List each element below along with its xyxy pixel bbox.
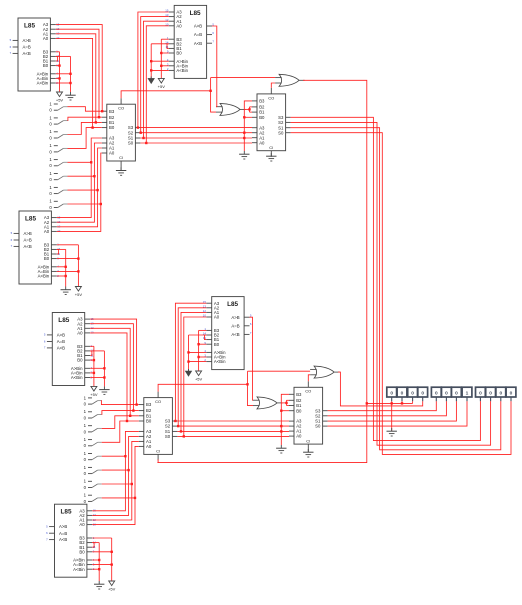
svg-text:CO: CO [155,399,161,404]
svg-text:A<Bin: A<Bin [176,68,188,73]
U7 wire A<Bin to gnd rail [189,361,207,363]
svg-text:+5V: +5V [195,377,203,382]
svg-text:S0: S0 [315,424,321,429]
svg-text:L85: L85 [190,10,201,17]
wire G2 output (digit-1 carry) down right side to U8.CI [157,80,366,462]
wire U1.A0 to X-bus bit0 [56,38,93,127]
svg-text:L85: L85 [227,301,238,308]
wire U6.A0 to X2-bus bit0 [90,333,127,421]
wire U2.A>B to G1 input [212,26,217,107]
svg-text:1: 1 [466,391,469,397]
wire S12 to U8.B0 [102,421,139,442]
svg-text:S2: S2 [278,120,284,125]
comparator U2 74LS85 (digit-1 sum vs 9) [165,5,214,78]
ground at U10 CI [307,450,309,452]
wire G1 output to U5.B2/B1 (+6 correction) [244,108,250,110]
wire S2 to U4.B2 [68,117,102,120]
svg-text:A0: A0 [176,23,182,28]
svg-text:A=B: A=B [231,323,239,328]
wire U5.S3 to X9 [291,117,481,440]
earth ground U4 CI [116,167,126,175]
wire Y-bus bit3: S5 / U3.A3 / U4.A3 [57,138,102,218]
svg-text:B0: B0 [146,419,152,424]
wire U1.A1 to X-bus bit1 [56,34,96,123]
svg-text:B3: B3 [259,99,265,104]
earth ground U10 CI [303,449,313,457]
svg-text:B0: B0 [296,408,302,413]
svg-text:A=B: A=B [57,339,65,344]
U2 wire B0 to +5V rail [161,52,169,54]
or-gate G4 [310,366,340,378]
wire U8.S2 to U10.A2 [177,425,289,427]
wire S10 to U8.B2 [102,411,139,415]
svg-text:0: 0 [455,391,458,397]
wire U1.A3 to X-bus bit3 [56,25,102,112]
wire U4.S2 to U5.A2 [140,132,252,134]
wire U4.S1 to U5.A1 [140,137,252,139]
svg-text:S2: S2 [165,424,171,429]
U2 wire B3 to +5V rail [161,38,169,40]
svg-text:L85: L85 [25,215,36,222]
svg-text:A0: A0 [296,434,302,439]
U1 wire A<Bin to gnd rail [56,82,71,84]
wire U8.S0 to U10.A0 [177,435,289,437]
ground at U5 CI [270,155,272,158]
svg-text:B0: B0 [77,358,83,363]
svg-text:S0: S0 [128,141,134,146]
+5V symbol U9 [108,581,116,592]
svg-text:CO: CO [268,95,274,100]
svg-text:B3: B3 [109,109,115,114]
LED indicator X2 [397,387,407,401]
svg-text:A>B: A>B [23,38,31,43]
gnd arrow U2 [148,76,154,83]
svg-text:A<Bin: A<Bin [73,567,85,572]
svg-text:L85: L85 [61,509,72,516]
U7 loop B2-B1 tie [205,335,207,340]
switch S12 (digit-2 bit) [84,437,102,448]
svg-text:S0: S0 [278,130,284,135]
svg-text:CI: CI [119,155,123,160]
svg-text:A0: A0 [259,140,265,145]
wire U10.S1 to X7 [328,401,457,421]
svg-text:A0: A0 [77,331,83,336]
U3 wire A=Bin to +5V rail [57,270,79,272]
switch S9 (digit-2 bit) [84,395,102,406]
U7 wire B2 to gnd rail [189,334,207,336]
wire U10.B3/B0 to ground [281,394,289,445]
svg-text:A=B: A=B [24,238,32,243]
wire Y-bus bit1: S7 / U3.A1 / U4.A1 [57,148,102,227]
svg-text:B3: B3 [146,402,152,407]
U3 wire B3 to +5V rail [57,244,79,246]
svg-text:+5V: +5V [108,587,116,592]
U6 wire B2 to gnd rail [90,350,104,352]
svg-text:0: 0 [411,391,414,397]
svg-text:A<Bin: A<Bin [37,81,49,86]
svg-text:L85: L85 [24,22,35,29]
svg-text:0: 0 [489,391,492,397]
switch S1 (digit-1 bit) [49,101,67,112]
earth ground X1 [387,428,397,436]
comparator U7 74LS85 (digit-2 sum vs 9) [203,297,252,370]
wire U10.S0 to X8 [328,401,467,426]
switch S7 (digit-1 bit) [49,185,67,196]
U7 wire B0 to +5V rail [199,343,207,345]
wire U5.CO to G2 input [271,83,275,88]
wire Y-bus bit2: S6 / U3.A2 / U4.A2 [57,143,102,222]
U6 loop B2-B1 tie [90,351,92,356]
wire U7.A1 to digit-2 sum bit1 [181,312,206,431]
wire Y2-bus bit2: S14 / U9.A2 / U8.A2 [92,436,139,515]
svg-text:A0: A0 [79,522,85,527]
U9 wire A=Bin to +5V rail [92,564,111,566]
ground at U4 CI [120,167,122,171]
wire U7.A0 to digit-2 sum bit0 [184,317,207,436]
LED indicator X10 [486,387,496,401]
earth ground U10 B-net [276,445,286,453]
svg-text:A0: A0 [109,151,115,156]
wire Y2-bus bit1: S15 / U9.A1 / U8.A1 [92,441,139,520]
or-gate G1 [216,103,246,115]
wire U7.A3 to digit-2 sum bit3 [175,303,206,421]
svg-text:B0: B0 [43,63,49,68]
+5V symbol U6 [90,386,98,397]
wire Y2-bus bit0: S16 / U9.A0 / U8.A0 [92,446,139,524]
U2 wire A=Bin to +5V rail [161,65,169,67]
svg-text:CO: CO [305,389,311,394]
svg-text:B0: B0 [109,125,115,130]
svg-text:0: 0 [445,391,448,397]
wire U7.A2 to digit-2 sum bit2 [178,308,206,426]
wire U2.A2 to digit-1 sum bit2 [141,17,169,133]
adder U5 74LS83 (digit-1 +6 correction) [252,88,291,157]
LED indicator X12 [506,387,516,401]
switch S15 (digit-2 bit) [84,479,102,490]
svg-text:S2: S2 [315,413,321,418]
svg-text:A<Bin: A<Bin [38,274,50,279]
wire X1 to ground [391,401,393,431]
U1 wire B2 to gnd rail [56,55,71,57]
U9 wire B3 to +5V rail [92,537,111,539]
LED indicator X3 [408,387,418,401]
svg-text:A0: A0 [43,36,49,41]
switch S3 (digit-1 bit) [49,129,67,140]
wire S11 to U8.B1 [102,416,139,429]
U7 wire B3 to +5V rail [199,329,207,331]
wire U6.A3 to X2-bus bit3 [90,319,137,405]
svg-text:B0: B0 [79,549,85,554]
wire CO1 to G2 input [211,77,276,79]
earth ground U5 B-net [239,151,249,159]
wire CO2 to G4 input [248,370,311,372]
wire U6.A1 to X2-bus bit1 [90,328,130,416]
wire U2.A0 to digit-1 sum bit0 [146,26,169,143]
wire U8.S1 to U10.A1 [177,430,289,432]
svg-text:0: 0 [435,391,438,397]
+5V symbol U7 [195,371,203,382]
wire Y2-bus bit3: S13 / U9.A3 / U8.A3 [92,431,139,510]
svg-text:A>B: A>B [59,524,67,529]
svg-text:A=B: A=B [59,531,67,536]
U6 wire B3 to +5V rail [90,345,94,347]
U9 wire A<Bin to gnd rail [92,568,99,570]
svg-text:+5V: +5V [56,98,64,103]
LED indicator X8 [462,387,472,401]
svg-text:A<Bin: A<Bin [71,375,83,380]
wire U6.A2 to X2-bus bit2 [90,324,133,411]
U9 wire B2 to gnd rail [92,542,99,544]
svg-text:A=B: A=B [194,32,202,37]
node CO2: U8 carry to G3 and G4 [158,384,247,391]
wire L1: G2 carry line to X2/X3, X1 ground tap [367,402,413,404]
adder U8 74LS83 (digit-2 X+Y) [139,392,178,461]
or-gate G3 [253,397,283,409]
+5V symbol U1 [56,92,64,103]
svg-text:A0: A0 [214,315,220,320]
earth ground U5 CI [266,153,276,161]
svg-text:A<B: A<B [24,244,32,249]
LED indicator X11 [496,387,506,401]
wire U4.S3 to U5.A3 [140,127,252,129]
U6 wire A<Bin to gnd rail [90,377,104,379]
wire U7.A>B to G3 input [250,317,254,400]
svg-text:B3: B3 [296,392,302,397]
svg-text:+5V: +5V [158,84,166,89]
LED indicator X1 [387,387,397,401]
LED indicator X5 [431,387,441,401]
switch S5 (digit-1 bit) [49,157,67,168]
U7 wire A>Bin to gnd rail [189,351,207,353]
earth ground U9 [94,581,104,589]
svg-text:S2: S2 [128,130,134,135]
svg-text:A>B: A>B [57,333,65,338]
wire U5.S2 to X10 [291,122,491,445]
wire U8.CI stub [157,459,159,462]
svg-text:+5V: +5V [75,292,83,297]
U3 wire A>Bin to gnd rail [57,266,66,268]
U3 wire B2 to gnd rail [57,248,66,250]
LED indicator X9 [476,387,486,401]
U9 wire A>Bin to gnd rail [92,559,99,561]
svg-text:A<B: A<B [194,41,202,46]
wire S1 to U4.B3 [68,107,102,112]
svg-text:B0: B0 [259,115,265,120]
U1 wire B3 to +5V rail [56,51,60,53]
wire S3 to U4.B1 [68,122,102,134]
switch S10 (digit-2 bit) [84,409,102,420]
svg-text:0: 0 [390,391,393,397]
svg-text:CI: CI [306,438,310,443]
earth ground U1 [65,92,75,100]
switch S6 (digit-1 bit) [49,171,67,182]
U6 wire A>Bin to gnd rail [90,367,104,369]
svg-text:0: 0 [479,391,482,397]
switch S16 (digit-2 bit) [84,493,102,504]
LED indicator X7 [452,387,462,401]
svg-text:+5V: +5V [90,392,98,397]
node CO1: U4 carry to G1 and G2 [121,91,211,98]
switch S13 (digit-2 bit) [84,451,102,462]
svg-text:CI: CI [156,449,160,454]
svg-text:0: 0 [401,391,404,397]
wire U5.B3/B0 to ground [244,101,252,151]
svg-text:A>B: A>B [24,231,32,236]
wire U8.S3 to U10.A3 [177,420,289,422]
+5V symbol U3 [75,287,83,298]
svg-text:0: 0 [421,391,424,397]
wire U10.S3 to X5 [328,401,437,410]
svg-text:A<B: A<B [231,332,239,337]
svg-text:L85: L85 [58,317,69,324]
U2 loop B2-B1 tie [167,44,169,49]
U3 wire A<Bin to gnd rail [57,275,66,277]
U3 loop B2-B1 tie [57,249,59,254]
svg-text:A<Bin: A<Bin [214,359,226,364]
U9 loop B2-B1 tie [92,543,94,548]
wire X2 stub to L1 [401,401,403,403]
svg-text:A<B: A<B [57,346,65,351]
U1 wire A>Bin to gnd rail [56,73,71,75]
U7 wire A=Bin to +5V rail [199,356,207,358]
svg-text:B0: B0 [176,51,182,56]
switch S2 (digit-1 bit) [49,115,67,126]
svg-text:0: 0 [510,391,513,397]
switch S14 (digit-2 bit) [84,465,102,476]
svg-text:CI: CI [269,145,273,150]
svg-text:A0: A0 [44,229,50,234]
wire U2.A3 to digit-1 sum bit3 [138,12,169,128]
comparator U6 74LS85 (digit-2 operand X vs 9) [44,313,94,386]
+5V symbol U2 [158,78,166,89]
comparator U9 74LS85 (digit-2 operand Y vs 9) [46,504,96,577]
svg-text:B0: B0 [44,256,50,261]
adder U4 74LS83 (digit-1 X+Y) [102,98,141,167]
wire U10.CO to G4 input [308,375,310,382]
switch S4 (digit-1 bit) [49,143,67,154]
wire U5.S0 to X12 [291,133,511,455]
gnd arrow U7 [185,369,191,376]
comparator U3 74LS85 (digit-1 operand Y vs 9) [11,211,61,284]
earth ground U6 [99,386,109,394]
comparator U1 74LS85 (digit-1 operand X vs 9) [10,18,60,91]
wire U5.S1 to X11 [291,128,501,450]
wire Y-bus bit0: S8 / U3.A0 / U4.A0 [57,153,102,231]
or-gate G2 [275,74,305,86]
wire G4 output (digit-2 carry) to X4 [338,372,423,406]
wire U1.A2 to X-bus bit2 [56,29,99,117]
LED indicator X4 [418,387,428,401]
svg-text:0: 0 [499,391,502,397]
wire U2.A1 to digit-1 sum bit1 [144,21,169,138]
U2 wire B2 to gnd rail [151,43,169,45]
U6 wire B0 to +5V rail [90,359,94,361]
U9 wire B0 to +5V rail [92,551,111,553]
wire S4 to U4.B0 [68,128,102,149]
switch S8 (digit-1 bit) [49,199,67,210]
U3 wire B0 to +5V rail [57,258,79,260]
svg-text:CO: CO [118,106,124,111]
U1 wire A=Bin to +5V rail [56,77,60,79]
earth ground U3 [61,287,71,295]
adder U10 74LS83 (digit-2 +6 correction) [289,381,328,450]
switch S11 (digit-2 bit) [84,423,102,434]
svg-text:S0: S0 [165,434,171,439]
svg-text:A>B: A>B [194,24,202,29]
U6 wire A=Bin to +5V rail [90,372,94,374]
wire U10.S2 to X6 [328,401,447,416]
wire U4.S0 to U5.A0 [140,142,252,144]
U2 wire A>Bin to gnd rail [151,60,169,62]
LED indicator X6 [442,387,452,401]
wire G3 output to U10.B2/B1 (+6 correction) [281,402,287,404]
wire S9 to U8.B3 [101,401,138,405]
svg-text:A=B: A=B [23,45,31,50]
svg-text:A>B: A>B [231,315,239,320]
svg-text:A<B: A<B [59,537,67,542]
svg-text:B0: B0 [214,342,220,347]
U1 wire B0 to +5V rail [56,65,60,67]
U1 loop B2-B1 tie [56,56,58,61]
svg-text:A0: A0 [146,444,152,449]
U2 wire A<Bin to gnd rail [151,69,169,71]
svg-text:A<B: A<B [23,51,31,56]
